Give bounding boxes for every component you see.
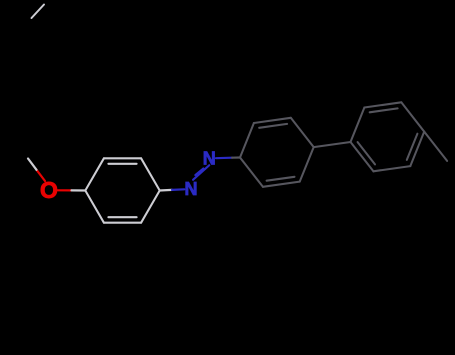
double bond N1=N2	[193, 165, 209, 180]
bond ring-ring (biphenyl)	[314, 142, 351, 147]
bond O-CH3	[28, 159, 45, 182]
bond ring-N1	[160, 189, 185, 190]
stray mark top-left	[32, 5, 45, 19]
benzene ring left (4-methoxyphenyl)	[85, 158, 159, 222]
svg-text:N: N	[185, 179, 198, 199]
bond O-ring	[58, 189, 86, 191]
bond N2-ring	[216, 156, 240, 159]
benzene ring middle	[240, 118, 314, 187]
svg-text:O: O	[40, 177, 58, 203]
bond ring-CH3 right	[424, 132, 447, 161]
benzene ring right	[351, 102, 425, 171]
